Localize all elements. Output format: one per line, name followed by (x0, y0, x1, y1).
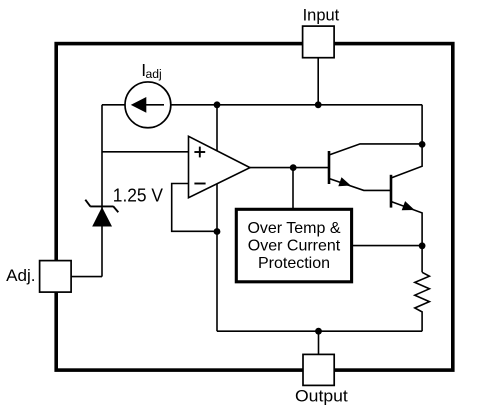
svg-text:Over Temp &: Over Temp & (247, 220, 340, 237)
svg-text:Adj.: Adj. (6, 266, 35, 285)
svg-text:Output: Output (295, 387, 348, 406)
svg-text:1.25 V: 1.25 V (113, 185, 163, 205)
svg-text:Over Current: Over Current (248, 238, 341, 255)
svg-text:adj: adj (146, 67, 162, 81)
svg-text:Protection: Protection (258, 255, 330, 272)
svg-text:Input: Input (303, 7, 340, 25)
